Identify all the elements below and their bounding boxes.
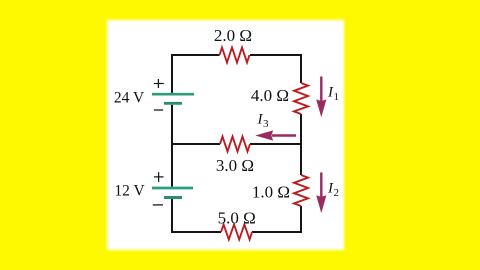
svg-text:1.0 Ω: 1.0 Ω xyxy=(252,182,290,201)
svg-text:4.0 Ω: 4.0 Ω xyxy=(251,86,289,105)
svg-text:1: 1 xyxy=(334,91,340,103)
svg-text:3.0 Ω: 3.0 Ω xyxy=(216,156,254,175)
svg-text:3: 3 xyxy=(263,118,269,130)
svg-text:5.0 Ω: 5.0 Ω xyxy=(218,209,256,228)
svg-text:12 V: 12 V xyxy=(114,183,145,200)
svg-text:24 V: 24 V xyxy=(114,89,145,106)
svg-text:2: 2 xyxy=(334,187,340,199)
svg-text:2.0 Ω: 2.0 Ω xyxy=(214,26,252,45)
